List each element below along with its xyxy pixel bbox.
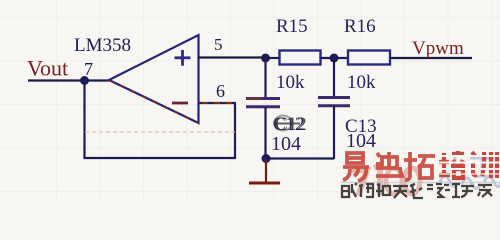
capacitor C12	[246, 99, 280, 107]
svg-text:6: 6	[216, 81, 225, 101]
wire feedback right vertical	[234, 103, 236, 158]
node at pin7 junction	[80, 76, 89, 85]
wire Vout to op-amp output	[28, 79, 110, 81]
watermark	[341, 151, 500, 198]
op-amp plus input marker	[175, 50, 191, 66]
label C12	[273, 114, 307, 135]
node at R16/C13 junction	[330, 54, 339, 63]
svg-text:10k: 10k	[347, 72, 376, 93]
ground	[249, 159, 280, 183]
wire pin 5 output to node	[198, 56, 266, 58]
node at R15/C12 junction	[261, 54, 270, 63]
wire R16 node to C13 top	[333, 58, 335, 97]
svg-text:R16: R16	[344, 16, 376, 37]
resistor R15	[280, 51, 321, 65]
wire pin 6	[198, 102, 236, 104]
svg-text:5: 5	[214, 35, 223, 54]
op-amp U1 LM358 triangle	[109, 35, 199, 123]
wire C13 bottom to ground wire	[333, 106, 335, 159]
svg-text:Vout: Vout	[27, 56, 68, 81]
resistor R16	[348, 51, 390, 65]
capacitor C13	[318, 98, 350, 106]
svg-text:Vpwm: Vpwm	[412, 38, 464, 59]
wire C12 bottom to ground node	[264, 107, 266, 159]
svg-text:R15: R15	[276, 16, 308, 37]
svg-text:LM358: LM358	[74, 35, 131, 56]
node at ground junction	[262, 154, 271, 163]
wire node to C12 top	[264, 58, 266, 98]
wire feedback bottom	[84, 157, 237, 159]
svg-text:104: 104	[271, 133, 301, 155]
wire R15 to R16	[321, 57, 348, 59]
svg-text:104: 104	[346, 130, 376, 152]
selection artifact dashed line	[85, 131, 235, 133]
svg-text:10k: 10k	[276, 72, 305, 93]
op-amp minus input marker	[172, 102, 188, 105]
svg-text:7: 7	[84, 59, 93, 79]
wire feedback left vertical	[83, 81, 85, 159]
wire node to R15	[265, 57, 281, 59]
wire ground node to C13 bottom	[265, 157, 334, 159]
wire R16 to Vpwm	[390, 57, 472, 59]
